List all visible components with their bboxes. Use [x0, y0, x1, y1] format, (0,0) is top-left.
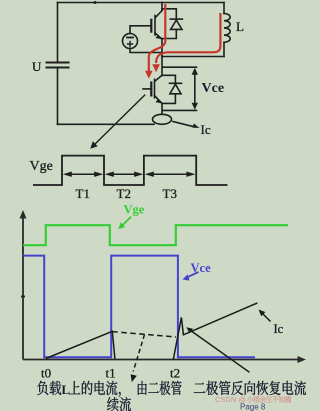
Ic reverse recovery spike and ramp: [173, 303, 257, 360]
svg-text:L: L: [236, 19, 244, 34]
gate drive source: [123, 26, 163, 53]
dimension arrow T3: [148, 173, 192, 175]
svg-text:Vce: Vce: [202, 81, 225, 96]
green pointer arrow: [122, 217, 132, 226]
Ic trace ramp t0-t1 (black): [46, 303, 271, 382]
svg-text:t2: t2: [170, 366, 180, 381]
Vce trace (blue): [23, 256, 255, 358]
wire midpoint to V2 collector: [161, 57, 163, 76]
dimension arrow T2: [108, 173, 140, 175]
svg-text:Ic: Ic: [274, 322, 284, 336]
Ic freewheel decay (dashed): [112, 332, 176, 337]
transistor V2 lower IGBT: [143, 75, 162, 103]
pointer arrow from gate to Vge diagram: [90, 95, 145, 149]
red current path 1 (through upper IGBT): [145, 4, 220, 79]
Vge trace (green): [23, 225, 288, 245]
wire emitter V1 to midpoint: [161, 39, 163, 56]
Vce measurement bracket: [163, 67, 198, 110]
transistor V1 upper IGBT: [151, 11, 162, 40]
svg-text:T2: T2: [117, 186, 131, 201]
current probe loop: [153, 114, 172, 124]
blue pointer arrow: [186, 272, 199, 278]
annotation: diode reverse recovery current: [194, 381, 306, 395]
wire bottom rail: [58, 123, 155, 125]
svg-text:t0: t0: [41, 366, 51, 381]
svg-text:Vce: Vce: [191, 261, 212, 275]
junction dot on top rail: [94, 1, 97, 4]
svg-text:T1: T1: [76, 186, 90, 201]
svg-text:Ic: Ic: [201, 122, 211, 137]
pointer line from recovery text to spike: [190, 330, 249, 372]
svg-text:t1: t1: [106, 366, 116, 381]
red current path 2 (freewheel loop via L): [156, 13, 220, 63]
plot y-axis: [20, 210, 307, 363]
dimension arrow T1: [66, 173, 100, 175]
Vge gate pulse waveform: [33, 156, 228, 185]
dashed pointer arrow to text: [133, 335, 144, 372]
svg-text:T3: T3: [163, 186, 177, 201]
wire emitter V2 to probe: [161, 103, 163, 114]
svg-text:U: U: [32, 59, 42, 74]
svg-text:L: L: [61, 382, 70, 397]
Ic pointer arrow: [262, 313, 271, 322]
wire left rail upper: [57, 3, 59, 62]
annotation: load current note line 1: [37, 381, 181, 397]
wire inductor bottom to midpoint: [162, 56, 224, 58]
arrow to Ic: [173, 122, 195, 128]
plot x-axis: [23, 359, 299, 361]
svg-text:Vge: Vge: [124, 203, 145, 217]
diode VD1 (upper freewheel): [162, 9, 182, 39]
svg-text:Page 8: Page 8: [240, 403, 266, 411]
capacitor U: [47, 63, 69, 68]
diode VD2 (lower freewheel): [162, 75, 182, 103]
inductor L branch: [224, 3, 230, 57]
wire top rail: [58, 2, 225, 4]
y-axis tick: [21, 296, 25, 298]
wire left rail lower: [57, 69, 59, 125]
svg-text:Vge: Vge: [30, 159, 53, 174]
wire collector drop V1: [161, 3, 163, 11]
annotation: load current note line 2: [107, 397, 131, 411]
